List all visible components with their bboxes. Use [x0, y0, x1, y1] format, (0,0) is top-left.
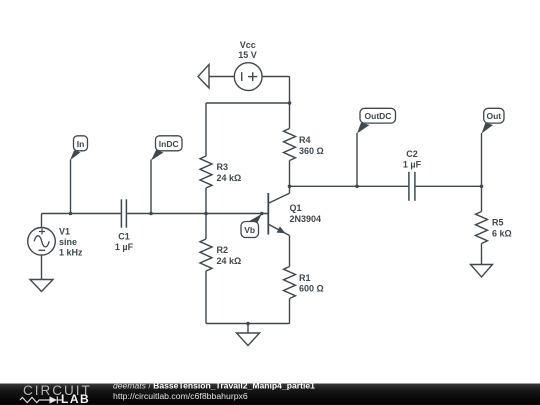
- svg-text:1 kHz: 1 kHz: [59, 248, 83, 258]
- svg-text:R4: R4: [299, 135, 311, 145]
- svg-text:InDC: InDC: [159, 139, 179, 149]
- svg-text:LAB: LAB: [61, 392, 90, 405]
- svg-text:V1: V1: [59, 227, 70, 237]
- svg-text:600 Ω: 600 Ω: [299, 283, 324, 293]
- svg-text:24 kΩ: 24 kΩ: [217, 173, 242, 183]
- svg-text:1 µF: 1 µF: [115, 242, 134, 252]
- svg-text:R5: R5: [492, 218, 504, 228]
- svg-text:OutDC: OutDC: [365, 111, 392, 121]
- svg-text:R1: R1: [299, 273, 311, 283]
- svg-text:24 kΩ: 24 kΩ: [217, 256, 242, 266]
- svg-text:http://circuitlab.com/c6f8bbah: http://circuitlab.com/c6f8bbahurpx6: [113, 391, 248, 401]
- svg-text:C2: C2: [406, 149, 418, 159]
- svg-text:15 V: 15 V: [238, 50, 257, 60]
- svg-text:Vcc: Vcc: [240, 40, 256, 50]
- svg-text:6 kΩ: 6 kΩ: [492, 228, 512, 238]
- svg-text:2N3904: 2N3904: [290, 214, 322, 224]
- svg-text:360 Ω: 360 Ω: [299, 146, 324, 156]
- svg-text:C1: C1: [118, 232, 130, 242]
- svg-text:deemats / BasseTension_Travail: deemats / BasseTension_Travail2_Manip4_p…: [113, 380, 315, 390]
- svg-text:R2: R2: [217, 245, 229, 255]
- svg-text:R3: R3: [217, 162, 229, 172]
- svg-text:Q1: Q1: [290, 203, 302, 213]
- svg-text:Out: Out: [486, 111, 501, 121]
- svg-text:sine: sine: [59, 237, 77, 247]
- svg-text:In: In: [77, 139, 85, 149]
- svg-text:1 µF: 1 µF: [403, 160, 422, 170]
- svg-text:Vb: Vb: [244, 225, 255, 235]
